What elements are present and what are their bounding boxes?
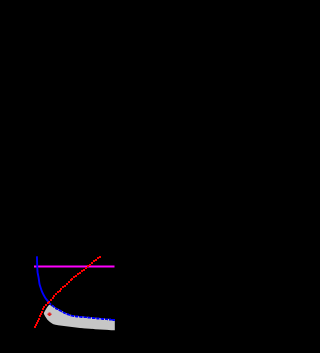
shaded region (gray coexistence band) bbox=[44, 305, 115, 331]
blue curve dashed branch (flat part over shaded band) bbox=[49, 302, 115, 321]
red dashed curve (spinodal, dotted) bbox=[34, 256, 101, 328]
red plus marker (critical point) bbox=[48, 312, 52, 316]
magenta horizontal line (tie line / pressure level) bbox=[34, 266, 115, 268]
blue curve solid branch (isotherm, steep part) bbox=[37, 256, 49, 302]
